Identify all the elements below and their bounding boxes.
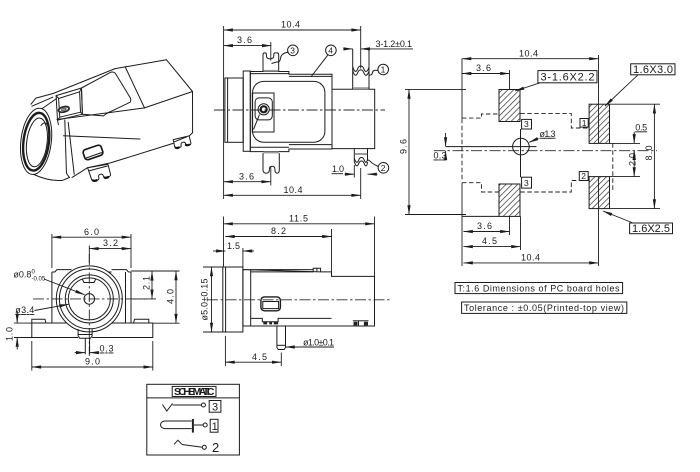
svg-text:2: 2 [212, 440, 219, 455]
dim 9.6 left [399, 89, 467, 214]
dim 9.0 [32, 341, 153, 371]
balloon 3 [272, 45, 299, 64]
dim 0.5 right [610, 122, 648, 157]
svg-text:10.4: 10.4 [519, 48, 538, 58]
top notch inside [82, 279, 96, 283]
window rounded rect [261, 297, 281, 311]
svg-text:11.5: 11.5 [289, 213, 308, 223]
svg-text:10.4: 10.4 [281, 20, 300, 30]
svg-text:4.0: 4.0 [166, 289, 176, 304]
svg-text:3.6: 3.6 [476, 63, 491, 73]
body rect [250, 72, 332, 152]
label 3-1.6X2.2 [515, 71, 597, 91]
dim 1.0 left [5, 311, 32, 350]
plate top band [31, 93, 53, 104]
outline dashed top [462, 114, 499, 118]
svg-text:3: 3 [290, 45, 295, 55]
row 3: contact 2 [174, 440, 182, 444]
schematic title [172, 386, 216, 396]
svg-text:4.5: 4.5 [252, 352, 267, 362]
balloon 1 [369, 64, 389, 75]
svg-text:2: 2 [381, 163, 386, 173]
bottom silhouette edge [72, 143, 173, 177]
svg-text:8.0: 8.0 [644, 146, 654, 161]
svg-text:3.2: 3.2 [103, 238, 118, 248]
inner vertical right [125, 272, 127, 323]
front fork foot [88, 164, 111, 181]
svg-text:1.0: 1.0 [332, 164, 344, 174]
centerlines [33, 298, 146, 300]
label ø1.0±0.1 [286, 337, 335, 347]
svg-text:ø0.8: ø0.8 [13, 270, 31, 280]
rear front-left edge [125, 67, 144, 108]
svg-text:Tolerance : ±0.05(Printed-top: Tolerance : ±0.05(Printed-top view) [464, 303, 624, 313]
cylinder bottom edge [34, 175, 70, 181]
oval hole [58, 106, 70, 114]
label box 1 [580, 118, 588, 128]
svg-text:T:1.6 Dimensions of PC board h: T:1.6 Dimensions of PC board holes [458, 284, 621, 294]
svg-text:1: 1 [381, 65, 386, 75]
dim 8.0 right [610, 104, 661, 208]
front face fold line [57, 108, 145, 120]
centerline [214, 109, 385, 111]
right extension block [332, 89, 375, 148]
teeth [263, 322, 267, 325]
dim 1.5 [213, 241, 254, 267]
flange [32, 323, 153, 338]
dim 2.0 right [610, 151, 641, 177]
barrel ring thick [20, 111, 52, 172]
top tabs [55, 270, 72, 272]
front face fold2 [64, 136, 141, 139]
circles [56, 266, 122, 332]
note box 2 [462, 302, 627, 313]
top bump [313, 268, 320, 272]
fork pin 3 bottom [263, 152, 279, 174]
fork pin 3 top [263, 53, 279, 72]
barrel outer ellipse [17, 106, 55, 176]
svg-text:ø1.3: ø1.3 [540, 129, 556, 139]
dim 0.3 left [434, 133, 447, 161]
label 1.6X3.0 [605, 64, 675, 106]
svg-text:ø3.4: ø3.4 [15, 305, 34, 315]
plate lower band edges [65, 120, 70, 177]
dim 10.4 bottom [224, 168, 361, 199]
hatched hole 3 bottom [499, 184, 520, 216]
pocket depth connectors [56, 88, 82, 120]
svg-text:ø1.0±0.1: ø1.0±0.1 [303, 337, 334, 347]
svg-text:3: 3 [524, 119, 529, 129]
dim 10.4 bottom [464, 177, 599, 266]
svg-text:3: 3 [212, 402, 218, 414]
bottom pad [78, 329, 92, 338]
barrel bore [24, 117, 50, 168]
dim 1.0 [332, 164, 378, 178]
svg-text:2.0: 2.0 [628, 153, 638, 166]
rear block top-right edge [167, 60, 193, 92]
svg-text:3: 3 [524, 178, 529, 188]
dim 8.2 [225, 226, 331, 276]
barrel rect [223, 267, 243, 332]
row 2: center pin 1 [161, 421, 192, 429]
top double line [251, 271, 314, 273]
dim 2.1 [133, 271, 156, 299]
centerline [207, 299, 390, 301]
center pin circles [258, 104, 269, 115]
barrel inner wall arc [41, 123, 50, 160]
label ø1.3 [529, 129, 555, 143]
svg-text:-0.05: -0.05 [32, 277, 46, 283]
svg-text:8.2: 8.2 [271, 226, 286, 236]
label box 3 top [522, 119, 532, 129]
pin axis line [446, 146, 537, 148]
flange tabs [32, 319, 149, 323]
silhouette jog at P [115, 67, 125, 69]
dim 3.6 top [224, 35, 272, 60]
body outline [243, 270, 375, 326]
right dashed vertical [612, 143, 614, 191]
label box 3 bottom [522, 177, 532, 188]
svg-text:3.6: 3.6 [237, 35, 252, 45]
svg-text:2.1: 2.1 [142, 276, 152, 290]
label 1.6X2.5 [603, 211, 673, 235]
dim 3.6 bottom [464, 216, 510, 235]
inner guide rounded rect [253, 81, 325, 142]
svg-text:1.6X2.5: 1.6X2.5 [632, 223, 670, 235]
balloon 2 [368, 160, 389, 174]
hatched hole 2 right [589, 177, 609, 209]
barrel cap rect [225, 78, 243, 142]
dim ø5.0±0.15 [200, 267, 223, 332]
dim 4.5 bottom [464, 216, 521, 250]
hatched hole 1 right [589, 104, 609, 143]
svg-text:1: 1 [212, 421, 218, 433]
pocket outer [56, 88, 82, 120]
pocket inner [59, 92, 81, 117]
svg-text:3.6: 3.6 [239, 171, 254, 181]
label ø0.8 [13, 270, 84, 295]
svg-text:10.4: 10.4 [284, 185, 303, 195]
right fork foot [173, 136, 191, 148]
centerline [434, 150, 657, 152]
front face hole [82, 144, 103, 160]
svg-text:0.3: 0.3 [434, 151, 447, 161]
svg-text:SCHEMATIC: SCHEMATIC [174, 386, 215, 398]
plate edge [250, 270, 252, 326]
housing outline [52, 272, 131, 323]
balloon 4 [311, 45, 336, 77]
svg-text:1.6X3.0: 1.6X3.0 [633, 64, 673, 76]
svg-text:ø5.0±0.15: ø5.0±0.15 [200, 279, 210, 321]
dim 4.5 [225, 336, 281, 366]
svg-text:1.0: 1.0 [5, 327, 15, 341]
rear bottom corner edge [186, 133, 192, 139]
rear block right edge [192, 92, 194, 133]
svg-text:4: 4 [328, 45, 333, 55]
dim 3.2 [89, 238, 131, 263]
svg-text:9.0: 9.0 [85, 357, 100, 367]
rear block top-left edge [125, 60, 166, 67]
left extension line [461, 59, 463, 119]
fork pin 2 bottom-right [354, 149, 367, 166]
dim 3.6 bottom [224, 166, 271, 185]
hatched hole 3 top [499, 90, 520, 122]
pin block rect [252, 93, 274, 132]
shield plate on top face [82, 72, 131, 116]
svg-text:1.5: 1.5 [227, 241, 240, 251]
right feet [353, 320, 369, 322]
front plate rect [243, 71, 250, 151]
pin [277, 326, 286, 350]
svg-text:3.6: 3.6 [477, 221, 492, 231]
bottom pin [85, 338, 89, 354]
row 1: switch contact to pin 3 [162, 404, 172, 412]
rear top/front boundary [145, 92, 193, 108]
dim 6.0 [52, 227, 131, 268]
svg-text:3-1.6X2.2: 3-1.6X2.2 [541, 72, 595, 84]
dim 3.6 top [462, 63, 510, 90]
svg-text:0.5: 0.5 [635, 122, 647, 132]
dim 11.5 [224, 213, 375, 276]
label ø3.4 [15, 304, 68, 315]
svg-text:6.0: 6.0 [84, 227, 99, 237]
dim 10.4 top [462, 48, 599, 143]
note box 1 [455, 283, 623, 294]
outline dashed bottom [462, 183, 499, 192]
svg-text:3-1.2±0.1: 3-1.2±0.1 [376, 39, 413, 49]
dim 3-1.2±0.1 [344, 39, 413, 49]
dim 10.4 top [224, 20, 361, 200]
svg-text:9.6: 9.6 [399, 139, 409, 154]
hole center circle [520, 129, 522, 177]
svg-text:10.4: 10.4 [521, 252, 540, 262]
svg-text:4.5: 4.5 [482, 236, 497, 246]
cylinder top edge [42, 99, 56, 109]
top-left silhouette edge [53, 69, 115, 94]
bottom inner structure [251, 318, 332, 321]
dim 0.3 bottom [75, 344, 114, 354]
fork pin 1 top-right [353, 49, 369, 89]
label box 2 [579, 171, 588, 181]
svg-text:0.3: 0.3 [100, 344, 114, 354]
svg-text:1: 1 [582, 118, 587, 128]
svg-text:2: 2 [581, 171, 586, 181]
dim 4.0 [131, 271, 180, 323]
